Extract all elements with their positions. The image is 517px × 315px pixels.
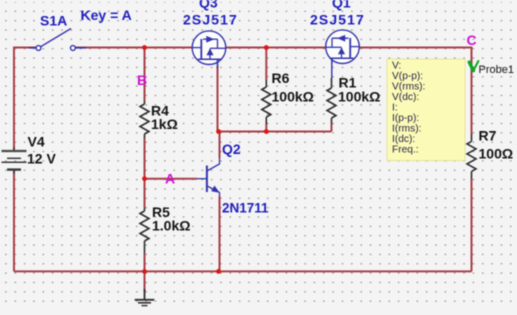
svg-text:V(dc):: V(dc): — [392, 92, 419, 103]
battery V4 — [2, 147, 27, 174]
svg-text:2N1711: 2N1711 — [222, 201, 269, 216]
wire R4 to node A to R5 — [144, 138, 146, 208]
resistor R7 — [467, 134, 476, 179]
svg-text:1.0kΩ: 1.0kΩ — [152, 218, 190, 234]
svg-text:C: C — [467, 32, 477, 48]
wire ground stub — [144, 271, 146, 291]
wire Q1 source down to R1 — [331, 58, 333, 78]
wire R6 bottom lead — [265, 124, 267, 132]
svg-text:B: B — [137, 72, 147, 88]
wire top rail: switch to Q3 — [75, 47, 192, 49]
svg-text:2SJ517: 2SJ517 — [183, 12, 238, 28]
junction ground on bottom rail — [142, 269, 147, 274]
svg-text:100kΩ: 100kΩ — [338, 89, 380, 105]
transistor Q3 (PMOS 2SJ517) — [192, 31, 226, 66]
wire node B vertical: rail to R4 — [144, 48, 146, 102]
wire R1 bottom lead — [331, 124, 333, 132]
svg-text:V(rms):: V(rms): — [392, 82, 425, 93]
wire Q3 drain blue stub — [217, 59, 219, 68]
svg-text:R7: R7 — [479, 128, 497, 144]
junction node B on top rail — [142, 45, 147, 50]
wire R6 top lead — [265, 48, 267, 81]
wire stub left of switch — [29, 47, 36, 49]
svg-text:Key = A: Key = A — [81, 7, 132, 23]
wire top rail: Q1 to corner C, down right side to R7 — [359, 48, 472, 135]
wire stub right of switch — [75, 47, 86, 49]
svg-text:I(p-p):: I(p-p): — [392, 113, 419, 124]
junction R6 top on rail — [264, 45, 269, 50]
svg-text:Q3: Q3 — [199, 0, 218, 11]
probe box text — [392, 61, 425, 156]
junction Q3 drain / Q2 collector — [216, 129, 221, 134]
wire node A to Q2 base — [145, 178, 198, 180]
svg-text:100Ω: 100Ω — [479, 146, 514, 162]
junction Q2 emitter on bottom rail — [216, 269, 221, 274]
svg-text:S1A: S1A — [40, 13, 67, 29]
wire left vertical top (battery + to rail) — [14, 48, 36, 152]
svg-text:12 V: 12 V — [27, 151, 56, 167]
ground — [135, 289, 155, 306]
svg-text:Q2: Q2 — [222, 141, 241, 157]
svg-text:V4: V4 — [28, 134, 45, 150]
svg-text:I:: I: — [392, 103, 398, 114]
svg-text:2SJ517: 2SJ517 — [310, 12, 365, 28]
svg-text:Probe1: Probe1 — [479, 64, 514, 76]
svg-text:A: A — [165, 171, 175, 187]
resistor R5 — [140, 208, 149, 253]
resistor R1 — [327, 78, 336, 124]
wire Q2 collector up to mid rail — [219, 132, 221, 159]
svg-text:I(rms):: I(rms): — [392, 123, 421, 134]
wire top rail: Q3 to Q1 — [226, 47, 327, 49]
switch S1A — [36, 29, 75, 51]
resistor R6 — [262, 80, 271, 124]
junction node A — [142, 176, 147, 181]
svg-text:100kΩ: 100kΩ — [272, 89, 314, 105]
wire bottom rail — [14, 270, 472, 272]
wire Q2 emitter down to bottom rail — [219, 196, 221, 271]
wire mid rail (Q3 drain / R6 / R1 bottoms) — [218, 131, 332, 133]
svg-text:1kΩ: 1kΩ — [151, 116, 178, 132]
svg-text:Q1: Q1 — [332, 0, 351, 11]
svg-text:Freq.:: Freq.: — [392, 144, 419, 155]
resistor R4 — [140, 101, 149, 138]
wire left vertical bottom (battery - to bottom rail) — [13, 171, 15, 272]
transistor Q2 (NPN 2N1711) — [197, 158, 220, 196]
transistor Q1 (PMOS 2SJ517) — [326, 30, 360, 64]
junction R6 bottom — [264, 129, 269, 134]
svg-text:I(dc):: I(dc): — [392, 134, 415, 145]
wire R5 to bottom rail — [144, 253, 146, 271]
wire Q3 drain down to mid rail — [217, 66, 219, 132]
probe1 arrow — [469, 61, 478, 71]
probe info box — [387, 59, 465, 161]
svg-text:V:: V: — [392, 61, 401, 72]
svg-text:R6: R6 — [272, 70, 290, 86]
wire right vertical below R7 — [471, 179, 473, 271]
svg-text:V(p-p):: V(p-p): — [392, 71, 423, 82]
